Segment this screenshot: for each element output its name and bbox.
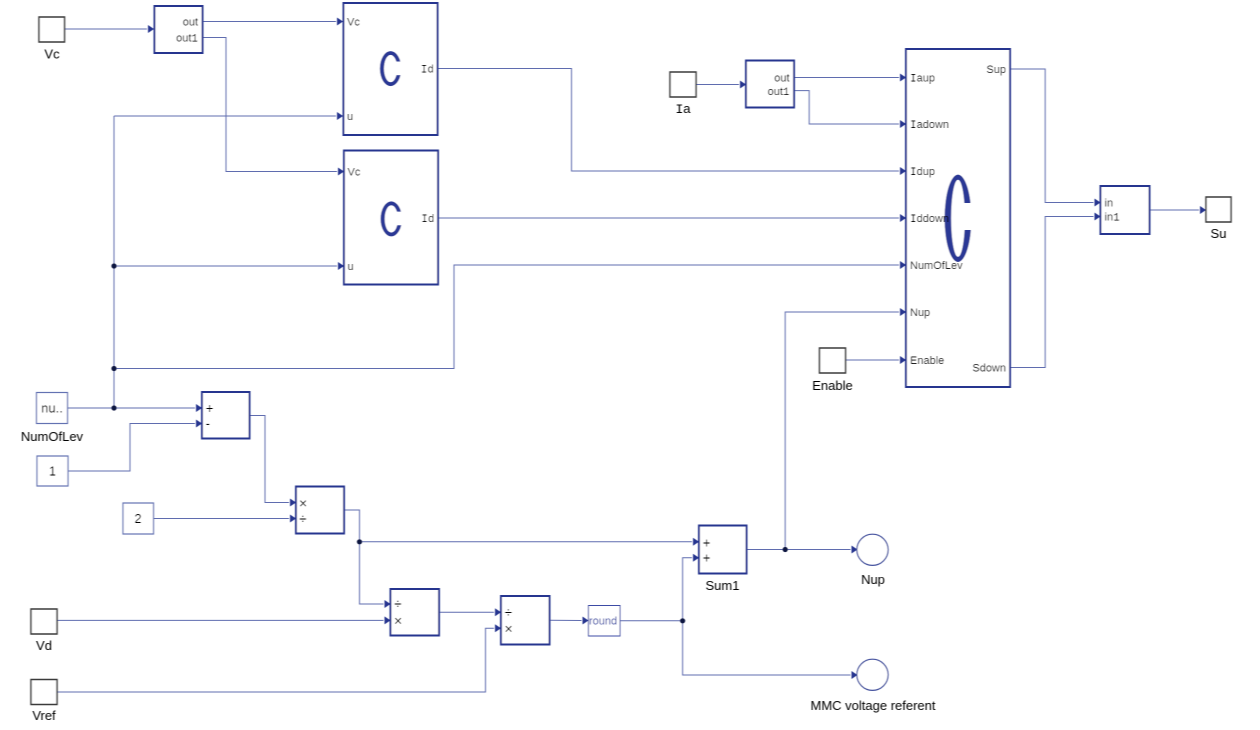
sum block Sum1 — [699, 526, 747, 574]
wire const 2 to product divide — [154, 518, 290, 520]
sum block plus minus — [202, 392, 250, 439]
svg-text:in: in — [1105, 198, 1114, 210]
wire sum out to product x — [250, 416, 290, 503]
subsystem big C block — [906, 49, 1010, 387]
svg-text:Nup: Nup — [910, 307, 930, 319]
svg-text:Idup: Idup — [910, 166, 935, 179]
wire Vref to divide2 x — [58, 628, 495, 692]
product block x divide — [296, 487, 344, 534]
inport Ia — [670, 72, 696, 97]
svg-text:Vc: Vc — [44, 47, 60, 62]
svg-text:÷: ÷ — [505, 604, 513, 620]
divide block 2 — [501, 596, 550, 645]
svg-text:u: u — [348, 261, 354, 273]
svg-text:+: + — [703, 535, 711, 551]
C glyph of C2 — [381, 201, 403, 236]
inport Vref — [31, 680, 57, 705]
subsystem out/out1 B — [746, 61, 794, 108]
wire outB.out to big.Iaup — [794, 77, 899, 79]
inport Enable — [820, 348, 846, 373]
node junction dots on NumOfLev net — [111, 405, 116, 410]
wire outB.out1 to big.Iadown — [794, 91, 899, 124]
wire divide1 out to divide2 — [439, 611, 494, 613]
scope MMC voltage referent — [857, 659, 888, 690]
svg-text:×: × — [505, 621, 513, 637]
svg-text:Id: Id — [421, 65, 434, 77]
wire round out branch to Sum1 plus2 and MMC scope — [620, 558, 692, 621]
svg-text:÷: ÷ — [299, 511, 307, 527]
wire Sum1 out to Nup scope with branch up to big.Nup — [747, 549, 851, 551]
svg-text:Nup: Nup — [861, 572, 885, 587]
wire Vc to out/out1 A — [65, 28, 147, 30]
wire NumOfLev net: nu.. to sum plus with vertical branch — [68, 407, 195, 409]
svg-text:×: × — [299, 495, 307, 511]
constant nu.. (NumOfLev) — [37, 393, 68, 424]
svg-text:out: out — [774, 73, 789, 85]
svg-text:-: - — [206, 415, 211, 431]
subsystem in/in1 — [1101, 186, 1150, 234]
wire branch vertical at x=114 — [113, 116, 115, 408]
C glyph of C1 — [380, 51, 402, 86]
svg-text:Iaup: Iaup — [910, 73, 935, 86]
svg-text:NumOfLev: NumOfLev — [21, 429, 84, 444]
svg-text:Vc: Vc — [348, 167, 361, 179]
wire big.Sdown to in1 — [1010, 217, 1094, 368]
wire C2.Id to big.Iddown — [438, 217, 899, 219]
svg-text:MMC voltage referent: MMC voltage referent — [811, 698, 936, 713]
round function block — [589, 606, 621, 637]
svg-text:nu..: nu.. — [41, 401, 63, 416]
svg-text:Su: Su — [1211, 226, 1227, 241]
svg-text:out: out — [183, 17, 198, 29]
svg-text:out1: out1 — [176, 33, 198, 46]
constant 1 — [37, 456, 68, 486]
svg-text:Enable: Enable — [910, 355, 944, 367]
wire branch to C2.u — [114, 265, 337, 267]
svg-text:Vref: Vref — [32, 708, 56, 723]
svg-text:Ia: Ia — [675, 101, 691, 117]
inport Vd — [31, 609, 57, 634]
svg-text:Enable: Enable — [812, 378, 852, 393]
scope Nup — [857, 534, 888, 565]
svg-text:round: round — [589, 616, 617, 628]
constant 2 — [123, 503, 154, 534]
svg-text:Sum1: Sum1 — [706, 578, 740, 593]
svg-text:NumOfLev: NumOfLev — [910, 260, 963, 272]
wire branch to big.NumOfLev — [114, 265, 899, 369]
wire Vd to divide1 x — [58, 619, 384, 621]
svg-text:+: + — [703, 550, 711, 566]
svg-text:2: 2 — [134, 511, 141, 526]
wire product out branch to Sum1 and divide1 — [344, 510, 692, 542]
wire const 1 to sum minus — [68, 424, 195, 472]
svg-text:Iddown: Iddown — [910, 213, 949, 226]
wire Enable to big.Enable — [846, 359, 900, 361]
svg-text:Id: Id — [421, 214, 434, 226]
svg-text:in1: in1 — [1105, 212, 1121, 225]
svg-text:Vd: Vd — [36, 638, 52, 653]
svg-text:Iadown: Iadown — [910, 119, 949, 132]
svg-text:+: + — [206, 400, 214, 416]
C glyph of big block — [945, 175, 972, 262]
wire Ia to out/out1 B — [696, 84, 739, 86]
wire C1.Id to big.Idup — [438, 69, 899, 172]
wire branch to C1.u — [114, 115, 336, 117]
svg-text:Sdown: Sdown — [972, 363, 1006, 375]
wire outA.out1 to C2.Vc — [203, 38, 337, 172]
subsystem out/out1 A — [155, 6, 203, 53]
inport Vc — [39, 17, 65, 42]
outport Su — [1206, 197, 1231, 222]
wire big.Sup to in — [1010, 69, 1094, 203]
svg-text:÷: ÷ — [394, 596, 402, 612]
wire divide2 out to round — [550, 619, 582, 621]
wire in block out to Su outport — [1150, 209, 1200, 211]
svg-text:×: × — [394, 613, 402, 629]
svg-text:Vc: Vc — [347, 17, 360, 29]
svg-text:u: u — [347, 111, 353, 123]
divide block 1 — [391, 589, 440, 636]
svg-text:Sup: Sup — [986, 64, 1006, 76]
subsystem C2 — [344, 151, 438, 285]
wire outA.out to C1.Vc — [203, 21, 336, 23]
svg-text:1: 1 — [49, 464, 56, 479]
subsystem C1 — [344, 3, 438, 135]
svg-text:out1: out1 — [768, 86, 790, 99]
